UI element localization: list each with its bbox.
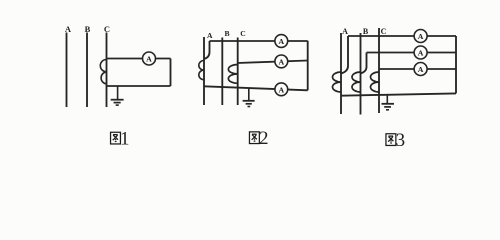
svg-text:A: A <box>207 31 213 40</box>
bus line B (fig1) <box>86 33 88 108</box>
ground (fig1) <box>111 86 124 105</box>
wire: top run through ammeter 1 (fig3) <box>348 35 456 37</box>
svg-text:A: A <box>278 58 284 67</box>
wire: B-CT top tap riser (fig3) <box>361 53 367 74</box>
svg-text:1: 1 <box>120 129 130 150</box>
svg-text:C: C <box>104 24 110 34</box>
svg-text:A: A <box>418 49 424 58</box>
svg-text:C: C <box>381 27 387 36</box>
CT TA1 secondary bumps on line C (fig1) <box>100 60 106 85</box>
ammeter PA3 (fig2) <box>275 83 288 96</box>
svg-text:A: A <box>65 24 72 34</box>
wire: A-CT top tap riser (fig3) <box>341 36 348 74</box>
bus line C (fig3) <box>378 28 380 113</box>
wire: right side of loop (fig1) <box>170 59 172 87</box>
ammeter PA1 (fig3) <box>414 30 427 43</box>
bus line B (fig2) <box>221 38 223 106</box>
svg-text:B: B <box>363 27 369 36</box>
svg-text:A: A <box>418 65 424 74</box>
wire: right bus joining ammeters (fig3) <box>455 36 457 93</box>
svg-text:B: B <box>224 29 229 38</box>
svg-text:C: C <box>240 29 245 38</box>
bus line B (fig3) <box>360 33 362 115</box>
bus line C (fig2) <box>237 38 239 106</box>
wire: common bottom return through ammeter 3 (fig2) <box>204 86 308 90</box>
ground (fig2) <box>243 88 255 107</box>
caption 图1 <box>111 132 121 144</box>
wire: top run through ammeter 1 (fig2) <box>210 40 308 42</box>
wire: C-CT top tap run through ammeter 3 (fig3) <box>379 68 456 70</box>
ammeter PA2 (fig3) <box>414 46 427 59</box>
svg-text:B: B <box>85 24 91 34</box>
CT TA2 secondary bumps on line C (fig2) <box>228 65 237 84</box>
caption 图3 <box>386 134 396 146</box>
wire: CT top tap to ammeter loop top (fig1) <box>107 58 171 60</box>
ammeter PA2 (fig2) <box>275 55 288 68</box>
wire: middle run from C-CT top tap through ammeter 2 (fig2) <box>238 61 308 64</box>
CT TA1 secondary bumps on line A (fig2) <box>199 61 204 80</box>
ammeter PA1 (fig1) <box>143 52 156 65</box>
svg-text:A: A <box>418 32 424 41</box>
wire: bottom return to CT (fig1) <box>107 85 171 87</box>
bus line A (fig3) <box>340 33 342 114</box>
CT TA3 secondary bumps on line C (fig3) <box>371 72 380 92</box>
svg-text:3: 3 <box>396 130 406 151</box>
ground (fig3) <box>382 95 395 110</box>
wire: A-CT top tap riser (fig2) <box>204 41 210 59</box>
bus line A (fig1) <box>66 33 68 108</box>
svg-text:2: 2 <box>259 128 269 149</box>
CT TA1 secondary bumps on line A (fig3) <box>333 72 341 92</box>
ammeter PA3 (fig3) <box>414 63 427 76</box>
wire: middle run through ammeter 2 (fig3) <box>367 52 457 54</box>
bus line C (fig1) <box>106 33 108 108</box>
svg-text:A: A <box>278 85 284 94</box>
wire: common bottom return (fig3) <box>341 93 456 95</box>
CT TA2 secondary bumps on line B (fig3) <box>352 72 361 92</box>
svg-text:A: A <box>342 27 348 36</box>
svg-text:A: A <box>278 37 284 46</box>
svg-text:A: A <box>146 55 152 64</box>
bus line A (fig2) <box>203 37 205 105</box>
wire: right bus joining ammeters (fig2) <box>307 41 309 91</box>
caption 图2 <box>249 132 259 144</box>
ammeter PA1 (fig2) <box>275 35 288 48</box>
